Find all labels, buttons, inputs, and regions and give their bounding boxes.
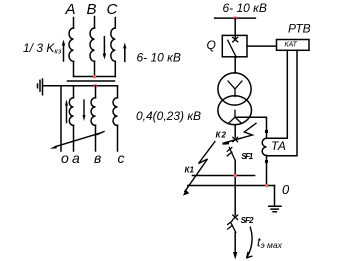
arrow current C up [124, 47, 126, 61]
wire secondary c bottom [117, 125, 119, 151]
winding secondary v [91, 98, 96, 126]
wire secondary c top [117, 86, 119, 98]
node TA top [265, 130, 268, 133]
svg-text:6- 10 кВ: 6- 10 кВ [137, 51, 181, 65]
breaker SF2 latch [228, 221, 233, 229]
wire secondary o [60, 86, 62, 151]
svg-text:0: 0 [282, 182, 290, 197]
svg-text:Q: Q [207, 38, 216, 52]
core line upper [68, 80, 115, 82]
wire SF2 down [234, 233, 236, 253]
arrow short-circuit K2 [223, 123, 256, 143]
wire secondary v bottom [95, 125, 97, 151]
wire TA lower [266, 156, 268, 186]
svg-text:A: A [65, 1, 76, 18]
wire secondary v top [95, 86, 97, 98]
breaker Q blade [228, 40, 237, 57]
svg-text:0,4(0,23) кВ: 0,4(0,23) кВ [136, 109, 201, 123]
node primary star junction [93, 75, 96, 78]
wire phase C lead [114, 18, 116, 29]
current transformer TA winding [262, 138, 266, 155]
wire phase B lead [94, 17, 96, 29]
winding primary A [69, 28, 74, 61]
relay KAT box [277, 40, 310, 51]
svg-text:К1: К1 [185, 166, 195, 175]
arrow secondary current down [83, 100, 85, 116]
breaker SF2 blade [231, 223, 236, 233]
bus 6-10 kV [215, 17, 256, 19]
arrow time delay curve [247, 227, 252, 257]
wire primary A bottom [73, 61, 75, 76]
node bus tap [234, 17, 237, 20]
svg-text:c: c [118, 150, 125, 166]
node neutral junction [265, 184, 268, 187]
svg-text:1/ 3 Kкз: 1/ 3 Kкз [23, 41, 62, 55]
node feeder junction [234, 174, 237, 177]
breaker SF1 cross [233, 137, 238, 141]
wire KAT left lead [267, 50, 288, 138]
arrow short-circuit K1 [185, 142, 215, 192]
arrow load down [233, 252, 237, 260]
wire Q to transformer [234, 57, 236, 73]
svg-text:SF1: SF1 [241, 152, 254, 161]
breaker Q contact stub [234, 35, 236, 38]
winding secondary c [113, 98, 118, 126]
svg-text:6- 10 кВ: 6- 10 кВ [223, 1, 267, 15]
svg-text:C: C [107, 1, 118, 18]
node TA bottom [265, 160, 268, 163]
wire primary C bottom [114, 61, 116, 76]
wire feeder line [193, 175, 255, 177]
wire KAT right lead [267, 50, 298, 155]
svg-text:РТВ: РТВ [288, 22, 311, 36]
arrow current A up [63, 44, 65, 61]
wire secondary a top [73, 86, 75, 98]
wire TA upper [266, 131, 268, 138]
transformer T primary circle [218, 73, 251, 105]
ground left [38, 79, 43, 95]
arrow secondary current up [66, 106, 68, 123]
wire secondary a bottom [73, 125, 75, 151]
breaker SF2 cross [233, 215, 238, 219]
wire phase A lead [73, 18, 75, 29]
wire transformer to bus crossing [234, 125, 236, 137]
wire neutral 0 line [188, 185, 275, 187]
svg-text:o: o [61, 150, 69, 166]
breaker Q cross [233, 37, 238, 42]
wire to ground right [274, 186, 276, 207]
ground right [269, 206, 281, 211]
wire SF1 to SF2 [234, 161, 236, 216]
wire Q to KAT coil [247, 45, 277, 47]
arrow short-circuit secondary [56, 132, 105, 147]
svg-text:B: B [87, 1, 97, 18]
svg-text:SF2: SF2 [241, 216, 255, 225]
svg-text:в: в [94, 150, 101, 166]
winding primary C [111, 28, 116, 61]
svg-text:К2: К2 [216, 130, 227, 139]
svg-text:a: a [72, 150, 80, 166]
winding secondary a [69, 98, 73, 126]
breaker SF1 latch [227, 148, 232, 156]
transformer T secondary circle [218, 96, 252, 125]
svg-text:ТА: ТА [271, 139, 286, 153]
breaker Q box [222, 35, 247, 56]
wire primary star connector [74, 76, 116, 78]
svg-text:tэ мах: tэ мах [257, 236, 283, 251]
arrow current B down [103, 37, 105, 55]
wire primary B bottom [94, 61, 96, 76]
wire neutral tap to TA [235, 117, 267, 131]
node secondary bus junction [94, 84, 97, 87]
wire bus to Q [234, 18, 236, 35]
transformer T star primary [228, 81, 242, 97]
svg-text:КАТ: КАТ [285, 42, 298, 49]
winding primary B [90, 28, 95, 61]
core line lower / secondary bus [43, 85, 118, 87]
breaker SF1 blade [229, 148, 235, 161]
transformer T star secondary [229, 110, 242, 123]
